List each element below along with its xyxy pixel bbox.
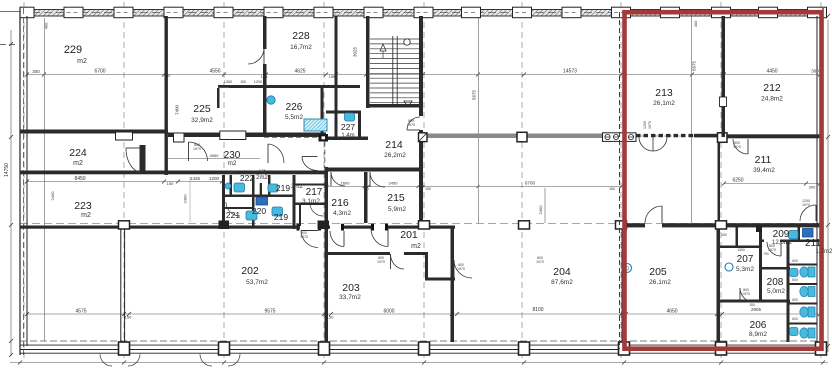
svg-text:220: 220	[252, 206, 266, 216]
svg-text:2400: 2400	[183, 194, 188, 204]
bottom exterior glazed wall	[20, 340, 823, 342]
grid: vertical axis dashed lines	[23, 2, 25, 362]
wall 224|223 and toilet-block top y170.5	[20, 171, 326, 175]
svg-text:8100: 8100	[532, 307, 543, 313]
svg-text:1200: 1200	[209, 176, 220, 181]
svg-text:216: 216	[331, 197, 349, 209]
sink room 226	[267, 96, 275, 104]
svg-text:26,1m2: 26,1m2	[653, 100, 675, 107]
svg-text:m2: m2	[77, 58, 87, 65]
dimension chain y181.5 room 223	[27, 181, 222, 183]
interior thin reference line x545 room 204	[544, 188, 546, 223]
svg-text:150: 150	[749, 303, 755, 307]
dim line inside room 223 right	[189, 177, 191, 222]
wall x786.5 (toilet col left)	[787, 240, 790, 342]
wall 214 bottom y167.5	[326, 168, 421, 172]
svg-text:8450: 8450	[74, 176, 85, 182]
wall x717.5 upper (211 left)	[718, 141, 721, 223]
svg-text:1970: 1970	[457, 267, 465, 271]
external dimension line right x828	[827, 20, 829, 352]
svg-text:m2: m2	[411, 243, 421, 250]
svg-text:4625: 4625	[294, 69, 305, 75]
toilet wall x252	[252, 175, 255, 226]
toilet wall x259.7	[260, 183, 262, 196]
wall 216|215 x364	[364, 172, 368, 223]
wall 201|203 y252 left part	[327, 252, 390, 255]
toilet cubicle divider y283	[790, 283, 818, 285]
wall 228 bottom y85	[229, 85, 360, 88]
wall 225|226 lower segment	[263, 64, 267, 135]
svg-text:1970: 1970	[648, 121, 652, 129]
wall band y133.5-138: gray beam x424-603	[424, 134, 603, 139]
svg-text:4450: 4450	[766, 69, 777, 75]
svg-text:600: 600	[792, 278, 798, 282]
column box at 721/137	[718, 133, 728, 143]
svg-text:m2: m2	[81, 212, 91, 219]
columns on central band y225	[419, 221, 429, 229]
staircase up arrow	[380, 44, 386, 51]
toilets right cubicle column	[808, 267, 815, 277]
svg-text:9575: 9575	[264, 309, 275, 315]
door wc 221	[226, 202, 240, 216]
svg-text:208: 208	[767, 277, 784, 288]
svg-text:4575: 4575	[75, 309, 86, 315]
svg-text:2450: 2450	[389, 181, 399, 186]
column box at 522/137	[517, 132, 527, 142]
dark shaft box at end of wall y133 x318-328	[319, 134, 329, 142]
dark columns at toilet block bottom	[219, 221, 229, 230]
door 201 to 203 at wall y252 x390-404	[391, 254, 405, 269]
svg-text:600: 600	[792, 259, 798, 263]
svg-text:1425: 1425	[190, 176, 201, 181]
wall y239.5 stub	[762, 240, 764, 243]
sink room 227	[345, 113, 355, 121]
toilet block left wall x222	[222, 175, 225, 226]
room 227 top wall	[326, 111, 361, 114]
toilet wall y194.5	[222, 195, 295, 198]
svg-text:4550: 4550	[210, 153, 220, 158]
dimension chain y186.5 rooms 216/215	[327, 186, 421, 188]
closet partition wall in room 224 x139.5	[140, 145, 146, 174]
door 211 bottom right	[800, 205, 816, 221]
door 216 to 201 at wall y226 x330-344	[330, 231, 344, 247]
shaft hatched cyan room 226/227	[304, 119, 327, 131]
svg-text:1200: 1200	[254, 80, 262, 84]
wall 208 top y267	[762, 267, 790, 270]
door arc room 224 closet	[126, 147, 141, 149]
entrance doors bottom facade	[100, 354, 112, 366]
wall 206 top y299.5	[720, 300, 790, 303]
sink room 209	[789, 231, 799, 240]
external dimension line left x11	[10, 30, 12, 356]
dimension chain y183.5 room 211	[724, 183, 820, 185]
svg-text:600: 600	[792, 317, 798, 321]
wall 226|227shaft x320.5	[321, 88, 324, 135]
svg-text:m2: m2	[227, 160, 236, 167]
svg-text:206: 206	[750, 320, 767, 331]
toilet cubicle divider y263.5	[790, 264, 818, 266]
staircase down arrow	[404, 101, 412, 107]
door 215 to 201 at wall y226 x371-388	[371, 229, 388, 247]
svg-text:3,1m2: 3,1m2	[302, 198, 320, 205]
double door at y137 x639-667	[639, 137, 653, 151]
toilet wall x292.5	[293, 175, 296, 229]
left exterior wall	[19, 8, 21, 355]
svg-text:1135: 1135	[258, 169, 265, 173]
wall 201|203 y252 right part	[404, 252, 428, 255]
svg-text:4,3m2: 4,3m2	[333, 210, 351, 217]
svg-text:214: 214	[385, 139, 403, 151]
svg-text:14573: 14573	[563, 69, 577, 75]
svg-text:1970: 1970	[733, 145, 741, 149]
door corridor arc near 226 left	[268, 144, 284, 163]
stair left wall x366	[366, 16, 370, 108]
svg-text:26,1m2: 26,1m2	[649, 279, 671, 286]
svg-text:224: 224	[69, 147, 87, 159]
svg-text:5,0m2: 5,0m2	[767, 288, 785, 295]
alcove wall y277.5	[425, 278, 455, 281]
room 227 right wall	[358, 111, 361, 140]
central wall band y225.5 segments with door gaps	[20, 226, 300, 229]
svg-text:213: 213	[655, 87, 673, 99]
grid: horizontal axis dash-dot y223.5	[20, 223, 823, 225]
svg-text:211: 211	[755, 154, 772, 166]
svg-text:1970: 1970	[193, 147, 201, 151]
svg-text:1550: 1550	[737, 248, 745, 252]
wall 207 top y245.5	[720, 246, 762, 249]
wall 205 top left segment	[624, 223, 645, 227]
wall 211 bottom / 209 top	[720, 223, 823, 227]
dimension chain y74.5 across top rooms	[27, 74, 820, 76]
door 225/226 corridor	[248, 48, 264, 64]
dimension chain y186.5 open area above 204	[423, 186, 621, 188]
wall 217 top y183.5	[295, 184, 326, 186]
wall 213|212 x721.5	[722, 16, 726, 137]
lintel box on wall 213|212	[720, 97, 727, 107]
wall 213 bottom solid x694-718	[694, 134, 718, 138]
svg-text:300: 300	[811, 69, 819, 74]
wall x735.5 (207 left)	[736, 225, 739, 248]
svg-text:14750: 14750	[4, 163, 10, 177]
svg-text:202: 202	[241, 265, 259, 277]
external axis mark top-left	[0, 44, 16, 46]
wall 225|230 y133 left part	[168, 133, 220, 138]
svg-text:221: 221	[226, 210, 240, 220]
dashed wall continuation x324.5 y141-170	[324, 142, 326, 171]
right exterior wall	[816, 16, 818, 346]
svg-text:1200: 1200	[643, 121, 647, 129]
wall x759 (207|208)	[759, 225, 762, 302]
external dimension line bottom y362.5	[10, 362, 828, 364]
door 211 top	[733, 139, 748, 154]
interior thin reference line x478.5	[478, 18, 480, 223]
svg-text:209: 209	[773, 229, 790, 240]
svg-text:16,7m2: 16,7m2	[290, 44, 312, 51]
svg-text:5,3m2: 5,3m2	[736, 266, 754, 273]
svg-text:205: 205	[649, 266, 667, 278]
fixture circle at 205 wall	[623, 264, 632, 273]
svg-text:1970: 1970	[768, 248, 776, 252]
svg-text:222: 222	[240, 173, 254, 183]
svg-text:223: 223	[74, 200, 92, 212]
svg-text:227: 227	[341, 122, 355, 132]
svg-text:5,9m2: 5,9m2	[388, 206, 406, 213]
top exterior wall (hatched band)	[20, 10, 823, 17]
top wall axis dashed	[20, 12, 823, 14]
svg-text:1,7m2: 1,7m2	[816, 249, 832, 255]
dimension chain y314 across bottom rooms	[27, 313, 820, 315]
svg-text:207: 207	[737, 254, 754, 265]
wall 229|224 y129.5	[20, 130, 168, 134]
interior thin reference line x44.5 (left glazing face)	[44, 18, 46, 341]
interior thin reference line x691.5	[691, 16, 693, 223]
svg-text:215: 215	[387, 192, 405, 204]
toilet cubicle divider y322.5	[790, 323, 818, 325]
svg-text:300: 300	[809, 185, 816, 190]
svg-text:7400: 7400	[175, 104, 180, 115]
long wall x324.5 (202|203, toilets right)	[325, 167, 329, 342]
svg-text:1600: 1600	[341, 181, 351, 186]
svg-text:2m2: 2m2	[256, 175, 268, 181]
wc fixtures middle block	[234, 183, 245, 192]
wall x419 lower segment to y223	[419, 130, 423, 223]
svg-text:225: 225	[193, 103, 211, 115]
svg-text:4650: 4650	[666, 309, 677, 315]
svg-text:150: 150	[721, 233, 727, 237]
wall 205 top right segment	[662, 223, 720, 227]
wall x797.5	[798, 225, 801, 240]
svg-text:2400: 2400	[50, 191, 55, 201]
door wc to 202 at wall y226 x300-318	[301, 231, 318, 248]
svg-text:400: 400	[693, 20, 698, 27]
grid: horizontal axis dash-dot y137 right part	[424, 135, 823, 137]
staircase circle symbol	[404, 39, 410, 45]
svg-text:219: 219	[276, 183, 290, 193]
svg-text:6250: 6250	[732, 178, 743, 184]
svg-text:150: 150	[425, 187, 431, 191]
small sinks right cubicles	[790, 269, 799, 277]
svg-text:6700: 6700	[94, 69, 105, 75]
svg-text:1970: 1970	[407, 123, 415, 127]
stair bottom wall y104	[366, 104, 423, 108]
bottom wall columns	[119, 342, 130, 355]
svg-text:26,2m2: 26,2m2	[384, 152, 406, 159]
room 227 bottom wall / 214 top-left	[326, 137, 368, 141]
small dark column 209 left	[756, 225, 762, 232]
svg-text:32,9m2: 32,9m2	[191, 117, 213, 124]
door 214 from stair hall	[407, 117, 420, 130]
svg-text:203: 203	[342, 282, 360, 294]
room 225 partial partition horizontal	[218, 85, 260, 88]
lintel box with vent symbols x603-636	[603, 133, 637, 142]
wall x716.5 lower (205|206 block)	[717, 223, 721, 342]
toilet wall y207	[222, 207, 252, 209]
svg-text:24,8m2: 24,8m2	[761, 96, 783, 103]
svg-text:1970: 1970	[377, 260, 385, 264]
svg-text:m2: m2	[73, 160, 83, 167]
svg-text:219: 219	[274, 212, 288, 222]
svg-text:87,6m2: 87,6m2	[551, 279, 573, 286]
svg-text:3025: 3025	[353, 46, 358, 57]
svg-text:6700: 6700	[525, 181, 536, 186]
svg-text:6000: 6000	[383, 309, 394, 315]
svg-text:8,9m2: 8,9m2	[749, 331, 767, 338]
lintel/column box on wall 229|224 at grid124	[116, 132, 133, 140]
wall 212|211 y134.3	[727, 134, 823, 138]
svg-text:229: 229	[64, 44, 82, 56]
wall 204|205 x621.5 (under red)	[622, 228, 625, 342]
svg-text:211: 211	[805, 238, 821, 249]
svg-text:53,7m2: 53,7m2	[246, 279, 268, 286]
svg-text:2400: 2400	[538, 205, 543, 215]
toilet wall x299	[299, 205, 301, 226]
wall 217 bottom y202.5	[295, 203, 326, 206]
svg-text:400: 400	[44, 22, 49, 29]
door 207	[740, 288, 754, 302]
room 225 partial partition vertical	[217, 88, 220, 108]
dim line inside room 230	[168, 158, 260, 160]
svg-text:1970: 1970	[802, 203, 810, 207]
dark blue fixture right top	[803, 229, 814, 238]
svg-text:1970: 1970	[742, 292, 750, 296]
svg-text:204: 204	[553, 266, 571, 278]
door corridor arc into toilet block	[302, 157, 318, 171]
top wall pilasters	[20, 7, 34, 18]
door 205 top (swings up)	[645, 206, 662, 223]
svg-text:212: 212	[763, 82, 781, 94]
svg-text:600: 600	[792, 298, 798, 302]
svg-text:2905: 2905	[751, 307, 762, 312]
door 203 to 204	[454, 260, 472, 278]
svg-text:39,4m2: 39,4m2	[753, 167, 775, 174]
svg-text:4550: 4550	[209, 69, 220, 75]
glazed partition 202 left x120.5-125	[120, 229, 122, 342]
wall 213 bottom dashed x636-694	[636, 134, 694, 137]
svg-text:226: 226	[286, 102, 303, 113]
wall 203|204 x450.5	[451, 227, 455, 342]
svg-text:300: 300	[32, 69, 40, 74]
door 216	[331, 172, 345, 186]
svg-text:228: 228	[292, 30, 310, 42]
toilet wall x229.5	[230, 175, 233, 196]
staircase center stringer	[392, 36, 394, 104]
wall 229|225 x164.5	[165, 16, 168, 175]
toilet wall x268	[268, 175, 271, 196]
svg-text:217: 217	[306, 187, 323, 198]
svg-text:5675: 5675	[472, 89, 477, 100]
wall 228 right x334.5	[335, 16, 338, 140]
opening lintel box on wall 225|230	[220, 131, 246, 140]
svg-text:150: 150	[167, 181, 174, 186]
staircase treads	[370, 38, 419, 40]
dashed opening line under wall 226 bottom	[264, 136, 317, 138]
toilet cubicle divider y302.5	[790, 303, 818, 305]
svg-text:150: 150	[125, 315, 132, 320]
svg-text:201: 201	[400, 229, 418, 241]
svg-text:5675: 5675	[692, 60, 697, 71]
wall 226 bottom y133 right part	[246, 133, 326, 138]
door 209	[767, 242, 781, 256]
lintel box at 230 left edge	[174, 133, 185, 142]
svg-text:1970: 1970	[300, 235, 308, 239]
svg-text:33,7m2: 33,7m2	[339, 294, 361, 301]
column box at 424/137	[419, 133, 428, 142]
svg-text:12,5m2: 12,5m2	[772, 240, 793, 246]
door 215	[370, 172, 385, 187]
svg-text:5,5m2: 5,5m2	[285, 114, 303, 121]
svg-text:1970: 1970	[536, 260, 544, 264]
wall 225|228 upper segment	[263, 16, 267, 49]
red highlight rectangle around rooms 205-213	[625, 12, 822, 349]
wall y239.5 (209 bottom)	[780, 240, 821, 243]
alcove wall x425	[425, 252, 428, 280]
svg-text:2m2: 2m2	[291, 184, 303, 190]
fixture circle room 207	[725, 263, 733, 271]
door wc 217	[310, 204, 323, 216]
central wall band jamb hatch marks	[297, 224, 300, 231]
svg-text:1300: 1300	[224, 80, 232, 84]
svg-text:150: 150	[240, 80, 246, 84]
wall x419 upper segment (stair right)	[419, 16, 423, 116]
dark red dashed line left of red box	[619, 12, 621, 349]
svg-text:150: 150	[609, 187, 615, 191]
svg-text:750: 750	[763, 252, 769, 256]
svg-text:7850: 7850	[228, 170, 236, 174]
svg-text:1,4m: 1,4m	[341, 133, 354, 139]
